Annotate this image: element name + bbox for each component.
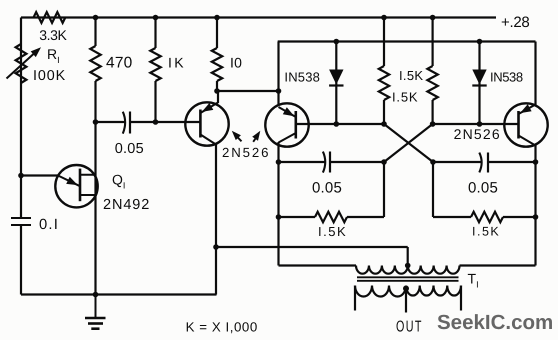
wire: Q1 vertical bus (470 node to ground)	[94, 122, 96, 295]
wire: Q1 emitter to left bus	[21, 174, 59, 176]
svg-text:2N492: 2N492	[103, 197, 150, 213]
transformer T1 primary winding	[356, 266, 460, 274]
wire: left 1.5K bottom	[383, 100, 385, 124]
resistor 1.5K (left vertical)	[379, 66, 389, 100]
label 1.5K (right feedback)	[472, 225, 500, 239]
junction dot 1K/base line	[153, 119, 159, 125]
transistor Q3 2N526 (multivib left)	[265, 103, 308, 146]
junction dot right base node	[430, 121, 436, 127]
junction dot primary center tap	[405, 263, 411, 269]
wire: base line cap to 1K node	[130, 121, 156, 123]
label 1.5K (left feedback)	[318, 224, 347, 239]
label 10	[230, 55, 242, 71]
label 1.5K (right vertical)	[392, 89, 418, 104]
transistor Q1 2N492 (unijunction)	[55, 165, 97, 207]
wire: +28 top supply rail	[21, 16, 496, 18]
svg-text:IN538: IN538	[284, 70, 320, 85]
label 0.05 (left feedback)	[312, 179, 342, 196]
capacitor 0.1 (plates)	[11, 218, 31, 225]
arrow to Q3	[252, 131, 260, 142]
svg-text:I.5K: I.5K	[318, 224, 347, 239]
wire: Q3 collector down	[277, 142, 279, 266]
wire: left cap line b	[330, 161, 384, 163]
wire: 10 node to multivib emitter rail	[217, 90, 279, 92]
junction dot top rail / 10	[214, 15, 220, 21]
wire: cross-couple diagonal left-to-right	[384, 124, 433, 162]
wire: secondary center lead	[405, 287, 407, 313]
label OUT	[396, 319, 423, 336]
junction dot left base node	[381, 121, 387, 127]
junction dot left bus / Q1 emitter	[18, 173, 24, 179]
resistor 470	[90, 46, 100, 81]
arrow to Q2	[232, 131, 242, 142]
junction dot rail2/left diode	[334, 39, 340, 45]
wire: right res line b	[503, 216, 536, 218]
svg-text:OUT: OUT	[396, 319, 423, 336]
label 470	[106, 55, 133, 72]
variable resistor R1 100K	[16, 44, 27, 83]
wire: Q2 collector to primary CT	[216, 247, 408, 266]
label 1N538 (right)	[490, 70, 523, 85]
wire: Q4 collector to primary right	[460, 264, 536, 266]
transistor Q2 2N526 (driver)	[185, 102, 228, 145]
resistor 1.5K (left feedback)	[315, 212, 347, 222]
junction dot Q4 collector / res line	[533, 214, 539, 220]
svg-text:TI: TI	[468, 271, 479, 290]
svg-text:470: 470	[106, 55, 133, 72]
wire: 1K branch bottom	[154, 81, 156, 122]
wire: 1K branch top	[154, 18, 156, 49]
transistor Q4 2N526 (multivib right)	[504, 103, 547, 146]
label R1	[47, 46, 60, 65]
junction dot bottom wire / ground	[93, 292, 99, 298]
resistor 3.3K (top, horizontal)	[34, 12, 66, 23]
label 0.05 (coupling cap)	[115, 141, 144, 157]
label 3.3K	[39, 27, 67, 43]
wire: 470 branch bottom	[94, 81, 96, 122]
svg-text:0.05: 0.05	[115, 141, 144, 157]
junction dot Q3 collector / cap line	[276, 159, 282, 165]
wire: bottom ground wire	[21, 293, 217, 295]
transformer T1 secondary winding	[355, 286, 461, 297]
wire: 470 branch top	[94, 18, 96, 47]
wire: 10 branch bottom	[216, 81, 218, 91]
arrow of variable resistor R1	[7, 47, 42, 78]
svg-text:SeekIC.com: SeekIC.com	[437, 311, 553, 334]
svg-text:I.5K: I.5K	[392, 89, 418, 104]
wire: right cap line b	[488, 161, 536, 163]
wire: cross-couple diagonal right-to-left	[384, 124, 433, 162]
junction dot right cap node	[430, 159, 436, 165]
svg-text:K = X I,000: K = X I,000	[186, 320, 258, 335]
junction dot 470/base line	[93, 119, 99, 125]
resistor 1.5K (right feedback)	[471, 212, 503, 222]
wire: Q4 base line to node	[433, 123, 519, 125]
diode D1 1N538 (left)	[329, 42, 343, 125]
wire: right cap line a	[433, 161, 482, 163]
junction dot Q2 collector / CT line	[213, 244, 219, 250]
wire: left 1.5K top	[383, 18, 385, 67]
junction dot Q4 collector / cap line	[533, 159, 539, 165]
wire: base line left of cap	[96, 121, 126, 123]
svg-text:2N526: 2N526	[222, 145, 270, 160]
wire: left vertical bus lower	[20, 225, 22, 295]
junction dot top rail / 1K	[153, 15, 159, 21]
wire: secondary left lead	[354, 286, 356, 311]
wire: base line to Q2 base	[156, 121, 202, 123]
junction dot top rail / right 1.5K	[430, 15, 436, 21]
junction dot top rail / left 1.5K	[381, 15, 387, 21]
wire: Q3 base line to node	[296, 123, 384, 125]
junction dot left cap node	[381, 159, 387, 165]
svg-text:2N526: 2N526	[454, 126, 501, 142]
resistor 1.5K (right vertical)	[427, 66, 437, 100]
wire: Q3 collector to primary left	[279, 264, 357, 266]
svg-text:I.5K: I.5K	[472, 225, 500, 239]
wire: emitter rail (second rail)	[278, 40, 536, 42]
label 0.1	[39, 217, 59, 233]
wire: right fb node down	[432, 162, 434, 217]
ground symbol	[85, 295, 106, 329]
svg-text:RI: RI	[47, 46, 60, 65]
label 1K	[168, 55, 186, 71]
capacitor 0.05 (left feedback)	[323, 152, 330, 173]
junction dot top rail / 470	[93, 15, 99, 21]
wire: left res line a	[279, 216, 316, 218]
resistor 1K	[150, 48, 160, 81]
svg-text:I00K: I00K	[33, 68, 66, 84]
svg-text:I0: I0	[230, 55, 242, 71]
capacitor 0.05 coupling (plates)	[123, 112, 130, 134]
wire: secondary right lead	[460, 286, 462, 311]
svg-text:0.I: 0.I	[39, 217, 59, 233]
label 0.05 (right feedback)	[468, 180, 498, 197]
diode D2 1N538 (right)	[472, 42, 486, 125]
svg-text:+.28: +.28	[501, 14, 529, 31]
label 2N526 (driver pair)	[222, 145, 270, 160]
wire: right emitter drop	[534, 42, 536, 106]
label K = X 1,000	[186, 320, 258, 335]
wire: right 1.5K top	[432, 18, 434, 67]
junction dot emitter rail drop	[276, 88, 282, 94]
label 1.5K (left vertical)	[399, 68, 423, 83]
label +.28	[501, 14, 529, 31]
wire: Q2 collector down	[215, 144, 217, 295]
wire: left vertical bus upper	[20, 18, 22, 219]
wire: left res line b	[347, 216, 384, 218]
wire: 10 branch top	[216, 18, 218, 49]
label 2N526 (right)	[454, 126, 501, 142]
resistor 10	[212, 48, 222, 81]
wire: left emitter drop	[277, 42, 279, 106]
label 2N492	[103, 197, 150, 213]
junction dot Q4 base node / diode	[477, 121, 483, 127]
junction dot rail2/right diode	[477, 39, 483, 45]
svg-text:IK: IK	[168, 55, 186, 71]
capacitor 0.05 (right feedback)	[479, 153, 488, 173]
svg-text:0.05: 0.05	[312, 179, 342, 196]
junction dot 10/emitter node	[214, 88, 220, 94]
wire: left fb node down	[383, 162, 385, 217]
junction dot secondary center tap	[403, 286, 409, 292]
wire: right res line a	[433, 216, 471, 218]
svg-text:QI: QI	[112, 172, 125, 191]
label 1N538 (left)	[284, 70, 320, 85]
junction dot Q3 collector / res line	[276, 214, 282, 220]
svg-text:0.05: 0.05	[468, 180, 498, 197]
svg-text:I.5K: I.5K	[399, 68, 423, 83]
transformer T1 core	[357, 277, 459, 281]
wire: left cap line a	[279, 161, 326, 163]
wire: Q2 emitter up to 10 node	[217, 91, 219, 103]
label T1	[468, 271, 479, 290]
watermark SeekIC.com	[437, 311, 553, 334]
svg-text:IN538: IN538	[490, 70, 523, 85]
svg-text:3.3K: 3.3K	[39, 27, 67, 43]
wire: Q4 collector down	[534, 145, 536, 266]
label 100K	[33, 68, 66, 84]
label Q1	[112, 172, 125, 191]
wire: right 1.5K bottom	[432, 100, 434, 124]
junction dot Q3 base node / diode	[334, 121, 340, 127]
